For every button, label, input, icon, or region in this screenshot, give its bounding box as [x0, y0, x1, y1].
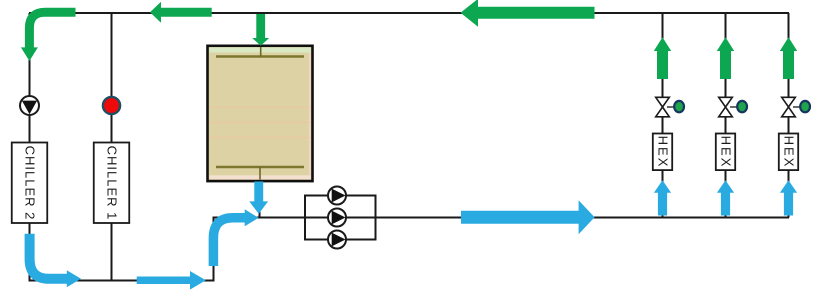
- heat exchanger HEX2 box: [716, 134, 735, 171]
- wire: chiller 2 branch vertical: [29, 13, 31, 281]
- wire: chiller 1 branch vertical: [111, 13, 113, 281]
- wire: top return header: [29, 12, 789, 14]
- pump status indicator CHWP-1 (red, stopped): [103, 97, 120, 114]
- pump P2: [328, 209, 346, 227]
- valve V1 actuator status (green): [674, 101, 684, 112]
- valve V2 (branch 2): [719, 97, 737, 117]
- svg-text:CHILLER 2: CHILLER 2: [22, 146, 37, 221]
- valve V3 actuator status (green): [800, 101, 810, 112]
- flow arrow: blue curved, riser into pump suction: [213, 209, 258, 266]
- flow arrow: blue straight, bottom run pointing right: [137, 271, 206, 290]
- tank top diffuser: [216, 47, 304, 57]
- flow arrow: green medium, top header pointing left: [150, 2, 212, 23]
- pump CHWP-2 (chiller 2 branch, running): [20, 96, 39, 115]
- wire: hex branch 3 vertical: [788, 13, 790, 218]
- flow arrow: blue up, hex branch 1 supply: [654, 180, 671, 215]
- pump P3: [328, 231, 346, 249]
- valve V3 (branch 3): [782, 97, 800, 117]
- wire: tank outlet stub: [259, 180, 261, 218]
- flow arrow: green up, hex branch 1 return: [654, 37, 671, 79]
- buffer tank body: [208, 46, 313, 181]
- svg-text:HEX: HEX: [782, 136, 797, 169]
- chiller 2 box: [12, 143, 48, 224]
- flow arrow: blue up, hex branch 2 supply: [717, 180, 734, 215]
- flow arrow: green curved, top header into chiller 2 branch: [21, 12, 76, 61]
- flow arrow: green up, hex branch 3 return: [780, 37, 797, 79]
- valve V2 actuator status (green): [737, 101, 747, 112]
- wire: hex branch 2 vertical: [725, 13, 727, 218]
- chiller 1 box: [94, 143, 130, 224]
- tank bottom diffuser: [216, 167, 304, 180]
- svg-text:HEX: HEX: [719, 136, 734, 169]
- flow arrow: blue curved, chiller 2 outlet to bottom run: [30, 234, 81, 287]
- heat exchanger HEX3 box: [779, 134, 798, 171]
- wire: hex branch 1 vertical: [662, 13, 664, 218]
- valve V1 (branch 1): [656, 97, 674, 117]
- heat exchanger HEX1 box: [653, 134, 672, 171]
- pump manifold box: [305, 196, 376, 240]
- flow arrow: green down into tank inlet: [252, 14, 269, 46]
- svg-text:HEX: HEX: [656, 136, 671, 169]
- flow arrow: blue large, pump discharge pointing right: [461, 200, 595, 234]
- flow arrow: blue up, hex branch 3 supply: [780, 180, 797, 215]
- svg-text:CHILLER 1: CHILLER 1: [104, 146, 119, 221]
- flow arrow: green up, hex branch 2 return: [717, 37, 734, 79]
- wire: bottom supply run with riser to pump suction: [29, 218, 790, 281]
- pump P1: [328, 187, 346, 205]
- wire: tank inlet stub: [260, 13, 262, 46]
- flow arrow: green large, top header pointing left: [461, 0, 595, 27]
- flow arrow: blue down, tank outlet: [249, 182, 268, 214]
